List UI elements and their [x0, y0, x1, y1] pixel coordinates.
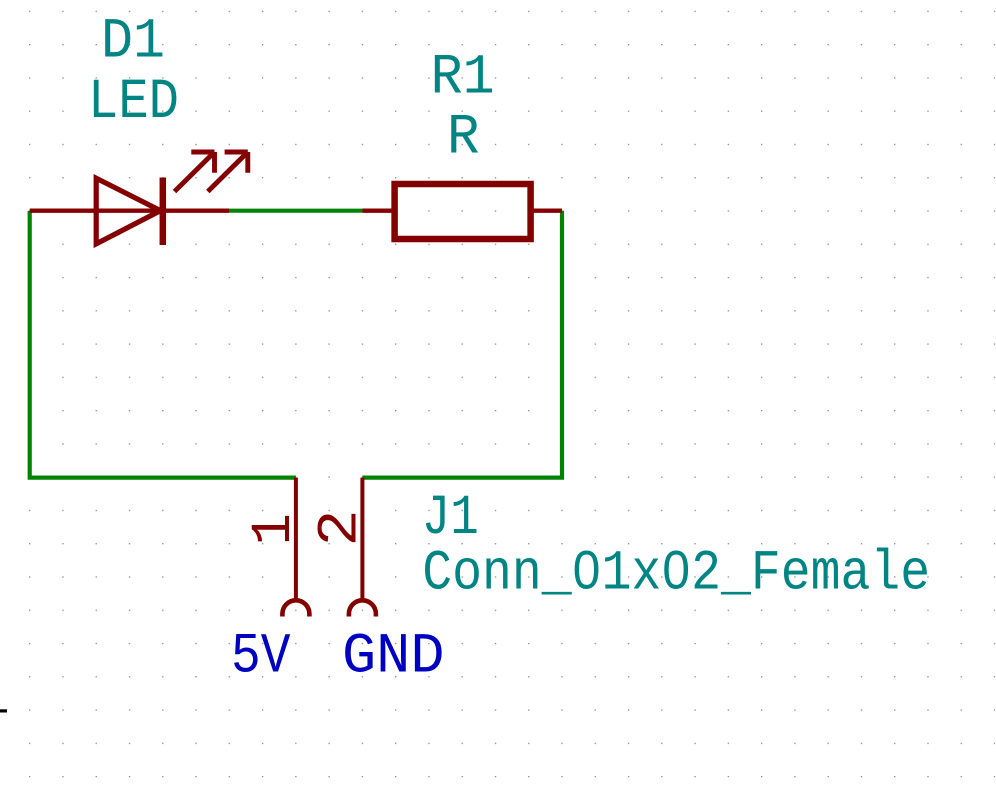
connector J1 pin 2 line	[360, 478, 364, 599]
svg-text:GND: GND	[342, 626, 445, 690]
svg-text:5V: 5V	[231, 626, 291, 690]
connector J1 socket arc pin 1	[282, 600, 309, 616]
resistor R1 right pin	[531, 208, 562, 212]
resistor R1 left pin	[362, 208, 394, 212]
svg-text:J1: J1	[422, 487, 479, 551]
zero dot covers for Conn label	[583, 566, 590, 575]
wire net3: resistor right, down, to pin 2	[362, 211, 562, 478]
svg-text:R1: R1	[431, 46, 495, 110]
sheet border tick	[0, 709, 7, 712]
LED arrow 2	[208, 152, 248, 192]
svg-text:2: 2	[310, 510, 374, 547]
svg-text:LED: LED	[88, 71, 179, 135]
svg-text:1: 1	[243, 513, 307, 545]
diode D1 anode pin	[30, 208, 163, 212]
connector J1 socket arc pin 2	[349, 600, 376, 616]
wire net2: LED cathode to resistor	[229, 209, 362, 213]
resistor R1 body	[395, 184, 531, 239]
diode D1 cathode pin	[163, 208, 230, 212]
diode D1 triangle	[96, 178, 160, 244]
svg-text:D1: D1	[101, 11, 165, 75]
wire net1: left vertical + bottom to pin 1	[30, 211, 296, 478]
svg-text:R: R	[447, 106, 480, 170]
LED arrow 1	[175, 152, 215, 192]
connector J1 pin 1 line	[294, 478, 298, 599]
diode D1 cathode bar	[160, 178, 167, 246]
